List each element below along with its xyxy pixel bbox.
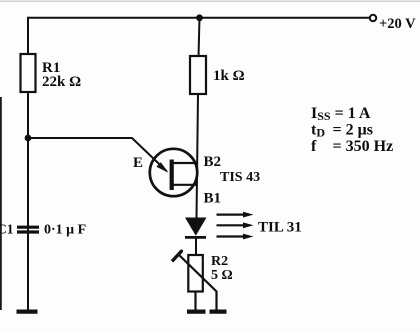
wire top rail +20V <box>28 17 370 19</box>
svg-text:B1: B1 <box>204 191 222 207</box>
R2 wiper arrowhead <box>172 250 183 261</box>
svg-text:0·1 μ F: 0·1 μ F <box>44 223 86 238</box>
LED cathode bar <box>185 236 206 239</box>
svg-text:TIS 43: TIS 43 <box>220 170 260 185</box>
svg-text:+20 V: +20 V <box>379 16 416 32</box>
wire middle branch below 1k to LED <box>197 94 199 218</box>
resistor R2 (variable) <box>188 255 203 292</box>
op: UJT transistor TIS 43 circle <box>150 149 197 196</box>
wire LED to R2 <box>195 237 197 255</box>
wire R2 to ground <box>194 292 196 311</box>
wire middle branch top <box>199 18 200 57</box>
terminal +20V open circle <box>370 15 376 21</box>
R2 wiper arrow diagonal <box>178 254 217 310</box>
resistor 1k <box>190 56 206 94</box>
svg-text:22k Ω: 22k Ω <box>42 74 81 90</box>
svg-text:E: E <box>133 155 143 171</box>
ground bar under wiper <box>210 310 227 314</box>
wire to emitter <box>28 138 167 171</box>
resistor R1 <box>21 54 36 92</box>
LED diode triangle <box>185 218 207 236</box>
wire left branch below R1 <box>27 92 29 310</box>
wire B1 lead <box>173 184 198 186</box>
svg-text:TIL 31: TIL 31 <box>258 220 302 236</box>
svg-text:B2: B2 <box>204 154 222 170</box>
svg-text:R2: R2 <box>211 254 228 269</box>
node junction dot <box>25 135 32 142</box>
svg-text:1k Ω: 1k Ω <box>213 68 245 84</box>
light arrow 1 <box>217 212 254 218</box>
light arrow 2 <box>217 222 254 228</box>
node junction dot top rail <box>196 14 203 21</box>
ground bar under R2 <box>187 310 206 314</box>
capacitor C1 plates <box>17 227 39 232</box>
light arrow 3 <box>217 234 254 240</box>
wire B2 lead <box>173 162 198 164</box>
transistor base bar <box>170 160 174 191</box>
wire left branch top <box>27 17 29 55</box>
ground bar left branch <box>17 310 38 314</box>
svg-text:C1: C1 <box>0 222 14 237</box>
scan border lines (decorative) <box>0 0 420 2</box>
emitter arrowhead <box>156 162 168 173</box>
svg-text:5 Ω: 5 Ω <box>211 268 233 283</box>
